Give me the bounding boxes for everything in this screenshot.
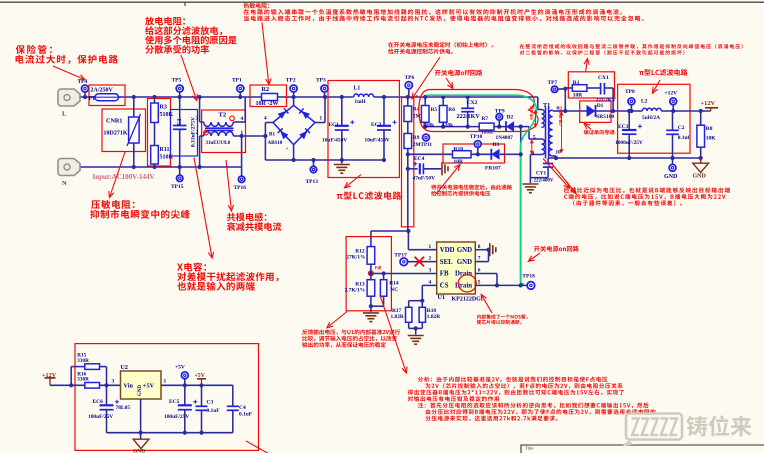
svg-text:5: 5	[478, 280, 481, 286]
svg-text:3: 3	[429, 268, 432, 274]
svg-text:GND: GND	[138, 385, 143, 397]
svg-text:+5V: +5V	[175, 364, 185, 370]
svg-text:4: 4	[241, 116, 244, 122]
svg-text:GND: GND	[664, 174, 678, 180]
svg-text:1000uF/25V: 1000uF/25V	[615, 140, 643, 146]
svg-text:EC1: EC1	[329, 122, 340, 128]
svg-text:10K: 10K	[706, 135, 717, 141]
svg-text:T2: T2	[219, 111, 227, 118]
svg-text:TP13: TP13	[306, 179, 319, 185]
svg-text:1N4007: 1N4007	[496, 135, 514, 141]
svg-text:5: 5	[533, 135, 536, 141]
svg-text:4: 4	[264, 115, 267, 121]
svg-text:N: N	[62, 180, 67, 187]
svg-text:C3: C3	[207, 400, 214, 406]
svg-text:1: 1	[164, 379, 167, 385]
svg-text:SR5100: SR5100	[596, 114, 614, 120]
svg-text:6: 6	[478, 268, 481, 274]
svg-text:CX2: CX2	[467, 100, 478, 106]
svg-text:F1: F1	[89, 96, 96, 102]
svg-text:3: 3	[196, 116, 199, 122]
svg-text:CNR1: CNR1	[106, 118, 123, 125]
svg-text:EC3: EC3	[618, 124, 629, 130]
svg-text:TP10: TP10	[470, 134, 483, 140]
svg-text:R7: R7	[482, 116, 489, 122]
svg-text:222/400V: 222/400V	[534, 179, 554, 184]
svg-text:1: 1	[429, 244, 432, 250]
svg-text:R6: R6	[448, 107, 455, 113]
svg-text:100uF/25V: 100uF/25V	[88, 414, 113, 420]
svg-text:EC2: EC2	[371, 122, 382, 128]
svg-text:510k: 510k	[423, 122, 434, 128]
svg-text:10uF/450V: 10uF/450V	[365, 138, 390, 144]
svg-text:Vin: Vin	[124, 383, 134, 390]
svg-text:SEL: SEL	[440, 259, 453, 266]
svg-text:R2: R2	[262, 86, 270, 93]
svg-text:330R: 330R	[77, 377, 89, 383]
svg-text:TP1: TP1	[232, 77, 242, 83]
svg-text:510K: 510K	[160, 154, 174, 160]
svg-text:TP8: TP8	[625, 89, 635, 95]
svg-text:1: 1	[320, 115, 323, 121]
svg-text:FB: FB	[440, 271, 449, 278]
svg-text:Drain: Drain	[455, 283, 472, 290]
svg-text:10uF/450V: 10uF/450V	[322, 138, 347, 144]
svg-text:C4: C4	[239, 405, 246, 411]
svg-text:VDD: VDD	[440, 247, 455, 254]
svg-text:27K/1%: 27K/1%	[346, 255, 365, 261]
svg-text:D2: D2	[507, 115, 514, 121]
svg-text:47uF/50V: 47uF/50V	[413, 176, 436, 182]
svg-text:510k: 510k	[442, 122, 453, 128]
svg-text:CX1: CX1	[598, 75, 609, 81]
svg-text:1.82R: 1.82R	[391, 314, 404, 320]
svg-text:+: +	[286, 146, 289, 152]
svg-text:ABS10: ABS10	[268, 141, 283, 146]
svg-text:R9: R9	[413, 135, 420, 141]
svg-text:10R: 10R	[573, 92, 584, 98]
svg-text:TP5: TP5	[172, 78, 182, 84]
svg-text:330R: 330R	[77, 358, 89, 364]
svg-text:EC5: EC5	[169, 399, 180, 405]
svg-text:L1: L1	[354, 85, 361, 91]
svg-text:1.82R: 1.82R	[427, 314, 440, 320]
svg-text:3: 3	[112, 379, 115, 385]
svg-text:U1: U1	[438, 295, 445, 301]
svg-text:R10: R10	[454, 146, 464, 152]
svg-text:78L05: 78L05	[116, 405, 131, 411]
svg-text:TP7: TP7	[548, 80, 558, 86]
svg-text:1: 1	[241, 130, 244, 136]
svg-text:4: 4	[429, 280, 432, 286]
svg-text:+12V: +12V	[701, 100, 716, 107]
svg-text:222/1KV: 222/1KV	[457, 113, 481, 120]
svg-text:R11: R11	[160, 147, 170, 153]
svg-text:31uEUU9.8: 31uEUU9.8	[206, 141, 231, 146]
svg-text:KP2122DG: KP2122DG	[452, 297, 482, 303]
svg-text:10R -2W: 10R -2W	[256, 101, 279, 107]
svg-text:D1: D1	[597, 103, 604, 109]
svg-text:0.1uF: 0.1uF	[207, 408, 221, 414]
svg-text:TP3: TP3	[316, 77, 326, 83]
svg-text:1mH: 1mH	[355, 99, 366, 105]
svg-text:R3: R3	[160, 104, 167, 110]
svg-text:R5: R5	[431, 107, 438, 113]
svg-text:TP18: TP18	[522, 274, 535, 280]
svg-text:Title: Title	[525, 445, 534, 450]
svg-text:5uH/2A: 5uH/2A	[642, 115, 660, 121]
svg-text:10D271K: 10D271K	[104, 130, 128, 136]
svg-text:GND: GND	[693, 174, 707, 180]
svg-text:U2: U2	[121, 365, 128, 371]
svg-text:CS: CS	[440, 283, 449, 290]
svg-text:R14: R14	[389, 281, 399, 287]
svg-text:D3: D3	[493, 142, 500, 148]
svg-text:0.1uF: 0.1uF	[239, 411, 253, 417]
svg-text:10R: 10R	[454, 159, 465, 165]
svg-text:100R: 100R	[481, 130, 493, 136]
svg-text:R1: R1	[573, 80, 580, 86]
svg-text:7: 7	[478, 256, 481, 262]
svg-text:TP16: TP16	[234, 185, 247, 191]
svg-text:TP6: TP6	[405, 75, 415, 81]
svg-text:+5V: +5V	[143, 383, 155, 390]
svg-text:EC4: EC4	[414, 156, 425, 162]
svg-text:TP2: TP2	[286, 77, 296, 83]
svg-text:C2: C2	[678, 125, 685, 131]
svg-text:R8: R8	[706, 126, 713, 132]
svg-text:Input:AC100V-144V: Input:AC100V-144V	[93, 173, 155, 181]
svg-text:R13: R13	[355, 281, 365, 287]
svg-text:TP11: TP11	[421, 142, 433, 148]
svg-text:8: 8	[478, 244, 481, 250]
svg-text:+5V: +5V	[195, 373, 206, 379]
svg-text:CY1: CY1	[536, 170, 546, 176]
svg-text:B1: B1	[269, 131, 275, 137]
svg-text:100uF/25V: 100uF/25V	[164, 414, 189, 420]
svg-text:0.1uf: 0.1uf	[678, 135, 690, 141]
svg-text:NC: NC	[390, 287, 398, 293]
svg-text:TP15: TP15	[171, 184, 184, 190]
svg-text:2: 2	[196, 130, 199, 136]
svg-text:FR107: FR107	[485, 166, 501, 172]
svg-text:2.7K/1%: 2.7K/1%	[345, 287, 366, 293]
svg-text:6: 6	[557, 106, 560, 112]
svg-text:EC6: EC6	[93, 399, 104, 405]
svg-text:L2: L2	[641, 99, 648, 105]
svg-text:GND: GND	[457, 259, 472, 266]
svg-text:2A/250V: 2A/250V	[91, 88, 114, 94]
svg-text:GND: GND	[133, 449, 145, 453]
svg-text:C1: C1	[177, 118, 183, 125]
svg-text:2M: 2M	[413, 142, 421, 148]
svg-text:+12V: +12V	[665, 91, 678, 97]
svg-text:Drain: Drain	[455, 271, 472, 278]
svg-text:2: 2	[429, 256, 432, 262]
svg-text:GND: GND	[457, 247, 472, 254]
svg-text:L: L	[62, 110, 67, 117]
svg-text:R12: R12	[355, 248, 365, 254]
svg-text:510K: 510K	[160, 112, 174, 118]
svg-text:222/2KV: 222/2KV	[596, 97, 616, 103]
